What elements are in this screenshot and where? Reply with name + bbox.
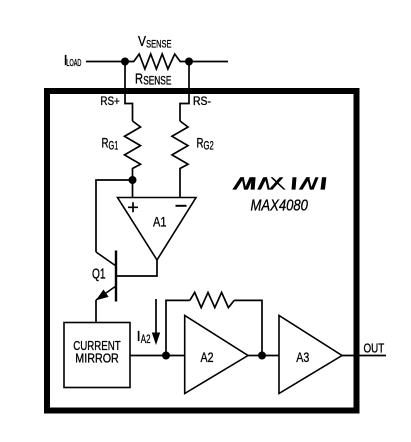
node B: A2 input junction [162, 352, 170, 360]
svg-text:G2: G2 [204, 139, 214, 153]
transistor Q1 [96, 251, 116, 302]
svg-text:MIRROR: MIRROR [75, 352, 119, 366]
resistor RG1 [125, 121, 141, 180]
node: RSENSE right junction [185, 58, 193, 66]
svg-text:LOAD: LOAD [66, 58, 81, 69]
resistor RG2 [172, 121, 188, 198]
wire: node A to A1 noninverting input [132, 180, 134, 198]
label ILOAD [64, 53, 82, 69]
svg-text:A3: A3 [296, 349, 309, 365]
amplifier A2 [185, 316, 248, 394]
wire: node C to A3 input [262, 355, 279, 357]
wire: A3 output to OUT pin [342, 355, 386, 357]
svg-text:R: R [102, 134, 109, 150]
wire: A1 output to Q1 base [116, 260, 157, 276]
label RG2 [197, 134, 214, 152]
label IA2 [137, 329, 151, 346]
node C: A2 output junction [258, 352, 266, 360]
label VSENSE [138, 34, 172, 50]
svg-text:G1: G1 [109, 139, 119, 153]
wire: node A to Q1 emitter rail [96, 180, 133, 252]
svg-text:SENSE: SENSE [146, 38, 171, 50]
label RSENSE [135, 71, 172, 88]
svg-text:SENSE: SENSE [143, 76, 171, 88]
wire: feedback left leg [166, 300, 190, 355]
svg-text:R: R [197, 134, 204, 150]
MAXIM logo [232, 177, 326, 189]
node: RSENSE left junction [121, 58, 129, 66]
svg-text:RS-: RS- [193, 94, 211, 108]
IC boundary box MAX4080 [47, 91, 357, 411]
op-amp A1 [118, 198, 197, 261]
label RG1 [102, 134, 119, 152]
svg-text:Q1: Q1 [92, 267, 106, 283]
svg-text:V: V [138, 34, 146, 50]
resistor RSENSE [125, 54, 189, 69]
svg-text:A2: A2 [201, 349, 214, 365]
wire: ILOAD lead to RSENSE left node [86, 61, 125, 63]
amplifier A3 [279, 316, 342, 394]
wire: Q1 collector to current mirror [95, 300, 97, 323]
svg-text:OUT: OUT [364, 342, 385, 356]
current mirror block [64, 323, 130, 388]
wire: RS+ pin from left node down with jog [125, 62, 133, 122]
svg-text:MAX4080: MAX4080 [251, 198, 308, 215]
wire: feedback right leg [234, 300, 262, 355]
wire: RSENSE right node to supply side [189, 61, 228, 63]
svg-text:A2: A2 [141, 332, 151, 346]
svg-text:A1: A1 [153, 214, 167, 230]
resistor R feedback around A2 [190, 292, 234, 307]
wire: current mirror output to node B [130, 355, 166, 357]
svg-text:R: R [135, 71, 143, 88]
wire: A2 output to node C [248, 355, 262, 357]
node A: RG1 bottom junction [129, 176, 137, 184]
current direction arrow IA2 [152, 299, 160, 345]
wire: node B to A2 input [166, 355, 185, 357]
svg-text:RS+: RS+ [100, 94, 119, 108]
wire: RS- pin from right node down with jog [180, 62, 189, 122]
